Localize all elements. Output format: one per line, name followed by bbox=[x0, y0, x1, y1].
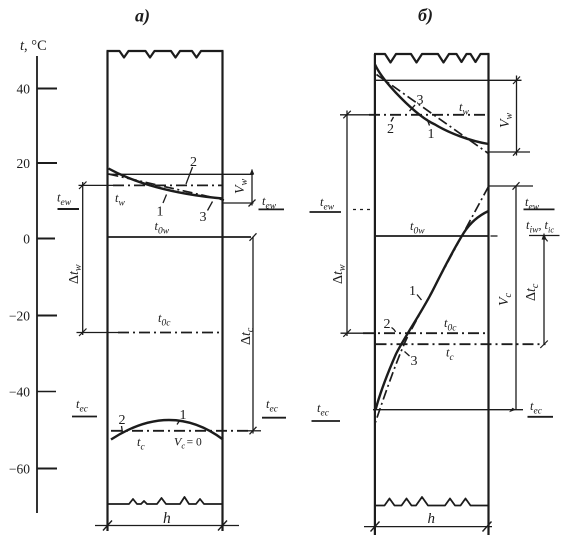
tick -60 bbox=[37, 468, 57, 470]
t_ew underline right b bbox=[524, 208, 555, 210]
leader 1 cold a bbox=[177, 420, 180, 425]
column b left wall bbox=[374, 54, 376, 535]
dt_w dimension vertical b bbox=[346, 111, 348, 337]
svg-text:h: h bbox=[428, 511, 436, 527]
svg-text:0: 0 bbox=[23, 232, 30, 247]
svg-text:3: 3 bbox=[411, 354, 418, 369]
svg-text:3: 3 bbox=[200, 210, 207, 225]
svg-text:2: 2 bbox=[190, 155, 197, 170]
svg-text:1: 1 bbox=[180, 408, 187, 423]
t_c mean dash-dot line a bbox=[111, 430, 248, 432]
t_ew underline right a bbox=[259, 208, 285, 210]
leader 2 cold b bbox=[392, 328, 396, 333]
svg-text:б): б) bbox=[418, 5, 433, 26]
dt_c top arrow b bbox=[542, 233, 547, 240]
leader 3 cold b bbox=[405, 352, 410, 357]
svg-text:1: 1 bbox=[157, 205, 164, 220]
t_0c dash-dot line a bbox=[118, 332, 223, 334]
tick 20 bbox=[37, 162, 57, 164]
leader 3 warm b bbox=[410, 105, 416, 111]
t_w dash-dot line b bbox=[369, 114, 489, 116]
arrow at Vc ref right b bbox=[509, 408, 516, 413]
t_w mean line 2 dash-dot a bbox=[113, 184, 223, 186]
svg-text:−60: −60 bbox=[9, 462, 30, 477]
dt_c dimension vertical b bbox=[543, 236, 545, 345]
svg-text:h: h bbox=[163, 510, 171, 527]
leader 3 a bbox=[208, 202, 213, 211]
slash at dtc bottom a bbox=[250, 427, 257, 435]
Vc bottom reference line b bbox=[373, 409, 523, 411]
Vw dimension vertical b bbox=[516, 76, 518, 156]
Vc top reference line b bbox=[489, 185, 534, 187]
svg-text:а): а) bbox=[135, 6, 150, 27]
t_c dash-dot line b bbox=[376, 343, 546, 345]
slash at dtw bottom a bbox=[79, 329, 87, 337]
t_0c dash-dot line b bbox=[363, 332, 489, 334]
h slash left a bbox=[103, 521, 112, 531]
Vw bottom reference line a bbox=[223, 202, 254, 204]
cold curve 1 arc a bbox=[111, 420, 223, 440]
t_w line connector b bbox=[340, 114, 369, 116]
svg-text:Vc= 0: Vc= 0 bbox=[174, 435, 202, 451]
column a top edge with notches bbox=[107, 51, 224, 58]
cold line 3 dash-dot b bbox=[375, 187, 489, 426]
leader 2 cold a bbox=[122, 426, 123, 433]
column a left wall bbox=[106, 51, 108, 531]
t_iw reference line b bbox=[529, 235, 560, 237]
h slash right b bbox=[483, 522, 492, 532]
t_c line right extension a bbox=[248, 430, 261, 432]
t_ew underline left b bbox=[310, 211, 342, 213]
slash dtw top b bbox=[343, 111, 351, 119]
column a right wall bbox=[221, 51, 223, 531]
slash Vc top b bbox=[513, 182, 520, 190]
svg-text:2: 2 bbox=[119, 413, 126, 428]
warm curve 1 b bbox=[375, 65, 489, 145]
slash at dtw top a bbox=[79, 182, 87, 190]
h slash left b bbox=[371, 522, 380, 532]
slash at t0w right end a bbox=[250, 233, 257, 241]
leader 2 a bbox=[186, 167, 193, 184]
t_ec underline right a bbox=[262, 417, 286, 419]
slash dtc bottom b bbox=[540, 341, 548, 349]
svg-text:20: 20 bbox=[17, 156, 31, 171]
t_0w small dash beyond b bbox=[491, 235, 498, 237]
tick 40 bbox=[37, 88, 57, 90]
dt_c dimension vertical a bbox=[252, 237, 254, 434]
svg-text:2: 2 bbox=[387, 122, 394, 137]
temperature axis bbox=[36, 56, 38, 513]
tick -20 bbox=[37, 315, 57, 317]
slash dtw bottom b bbox=[343, 329, 351, 337]
warm line 3 dash-dot b bbox=[377, 75, 489, 154]
column b top edge with notches bbox=[374, 54, 490, 63]
t_ec underline left b bbox=[312, 420, 341, 422]
svg-text:−40: −40 bbox=[9, 385, 30, 400]
Vw bottom slash a bbox=[249, 200, 256, 207]
column b right wall bbox=[487, 54, 489, 535]
column a bottom broken edge bbox=[107, 497, 223, 504]
Vw top reference line b bbox=[376, 79, 522, 81]
t_0c connector solid b bbox=[341, 332, 364, 334]
tick 0 bbox=[37, 238, 55, 240]
slash Vw top b bbox=[513, 77, 520, 85]
tick -40 bbox=[37, 391, 56, 393]
svg-text:1: 1 bbox=[428, 127, 435, 142]
t_ew underline left a bbox=[58, 208, 80, 210]
dt_w top connector a bbox=[79, 184, 115, 186]
Vw dimension a vertical bbox=[251, 170, 253, 206]
t_0c connector solid a bbox=[77, 332, 119, 334]
svg-text:3: 3 bbox=[417, 93, 424, 108]
h dimension line a bbox=[95, 525, 239, 527]
column b bottom broken edge bbox=[375, 497, 489, 506]
leader 1 a bbox=[163, 195, 167, 204]
leader 1 warm b bbox=[427, 119, 430, 126]
Vw arrow up a bbox=[250, 169, 254, 174]
svg-text:40: 40 bbox=[17, 82, 31, 97]
leader 2 warm b bbox=[391, 117, 394, 122]
svg-text:1: 1 bbox=[409, 284, 416, 299]
t_ec underline right b bbox=[528, 416, 554, 418]
slash Vw bottom b bbox=[513, 148, 520, 156]
curve 1 warm a bbox=[109, 169, 223, 199]
svg-text:t, °C: t, °C bbox=[20, 38, 47, 54]
h dimension line b bbox=[364, 526, 492, 528]
t_0w line b bbox=[375, 235, 489, 237]
small dashes right of t_ew b bbox=[353, 209, 372, 211]
svg-text:2: 2 bbox=[384, 317, 391, 332]
cold curve 1 b bbox=[376, 211, 489, 410]
curve 3 dash-dot a bbox=[109, 174, 225, 200]
t_ec underline left a bbox=[72, 416, 97, 418]
t_0w line a bbox=[108, 236, 252, 238]
Vw bottom reference line b bbox=[489, 151, 531, 153]
svg-text:−20: −20 bbox=[9, 309, 30, 324]
h slash right a bbox=[218, 521, 227, 531]
Vc dimension vertical b bbox=[515, 186, 517, 410]
leader 1 cold b bbox=[417, 295, 422, 301]
dt_w dimension vertical a bbox=[82, 182, 84, 335]
Vw top reference line a bbox=[108, 173, 254, 175]
